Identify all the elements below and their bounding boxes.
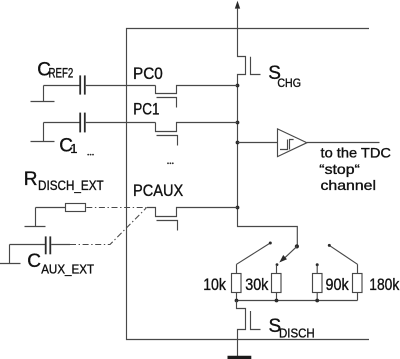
svg-text:DISCH: DISCH bbox=[279, 325, 315, 340]
ellipsis (between PC1 and PCAUX) bbox=[167, 162, 169, 164]
switch contact (180k) bbox=[330, 246, 358, 264]
supply arrow (top) bbox=[235, 1, 240, 9]
svg-text:PC0: PC0 bbox=[133, 65, 163, 83]
ground (under CREF2) bbox=[31, 86, 55, 102]
ground (main, under S_DISCH) bbox=[228, 356, 252, 359]
resistor R_DISCH_EXT bbox=[36, 207, 66, 209]
ground (under C1) bbox=[31, 123, 55, 142]
transistor S_DISCH bbox=[237, 301, 246, 357]
wire dash-dot R_DISCH_EXT to PCAUX bbox=[86, 207, 147, 209]
capacitor C1 bbox=[44, 122, 80, 124]
node PC1 junction bbox=[236, 121, 240, 125]
svg-text:AUX_EXT: AUX_EXT bbox=[41, 263, 94, 277]
wire supply vertical into S_CHG bbox=[238, 8, 246, 86]
svg-text:90k: 90k bbox=[326, 275, 350, 294]
wire CREF2 to PC0 bbox=[86, 85, 156, 87]
svg-text:PCAUX: PCAUX bbox=[133, 182, 183, 200]
resistor 90k bbox=[316, 266, 318, 301]
wire resistor bottom rail bbox=[237, 300, 358, 302]
svg-text:R: R bbox=[24, 169, 38, 190]
transistor PC0 bbox=[156, 86, 238, 94]
transistor PC1 bbox=[156, 123, 238, 132]
node 30k bottom bbox=[275, 299, 279, 303]
svg-text:to the TDC: to the TDC bbox=[321, 145, 392, 161]
svg-text:180k: 180k bbox=[369, 275, 399, 294]
node 90k bottom bbox=[315, 299, 319, 303]
svg-text:“stop“: “stop“ bbox=[319, 161, 360, 177]
ellipsis (below C1) bbox=[87, 154, 89, 156]
wire main vertical rail bbox=[238, 86, 298, 247]
switch contact (30k) bbox=[276, 263, 279, 266]
resistor 30k bbox=[276, 265, 278, 301]
switch contact (10k) bbox=[237, 243, 270, 264]
wire C1 to PC1 bbox=[86, 122, 156, 124]
node PCAUX junction bbox=[236, 206, 240, 210]
resistor 180k bbox=[357, 264, 359, 300]
resistor 10k bbox=[236, 264, 238, 300]
ground (under R_DISCH_EXT) bbox=[25, 208, 46, 227]
ground (under C_AUX_EXT) bbox=[0, 245, 21, 264]
transistor PCAUX bbox=[147, 208, 238, 217]
svg-text:REF2: REF2 bbox=[49, 65, 74, 80]
svg-text:10k: 10k bbox=[203, 275, 226, 294]
capacitor C_AUX_EXT bbox=[10, 244, 46, 246]
svg-text:CHG: CHG bbox=[277, 78, 301, 90]
capacitor CREF2 bbox=[44, 85, 80, 87]
switch wiper arrow (selects 30k) bbox=[285, 246, 297, 258]
wire comparator output bbox=[307, 142, 380, 144]
wire dash-dot C_AUX_EXT to PCAUX bbox=[70, 208, 146, 245]
node 10k bottom bbox=[235, 299, 239, 303]
svg-text:1: 1 bbox=[70, 141, 77, 156]
transistor S_CHG gate bbox=[251, 57, 261, 75]
svg-text:PC1: PC1 bbox=[133, 101, 159, 119]
node PC0/S_CHG junction bbox=[236, 84, 240, 88]
node comparator junction bbox=[236, 141, 240, 145]
switch contact (90k) bbox=[316, 263, 319, 266]
chip boundary box (open right side) bbox=[127, 29, 370, 340]
svg-text:channel: channel bbox=[321, 177, 377, 193]
wire comparator input bbox=[238, 142, 278, 144]
svg-text:30k: 30k bbox=[245, 275, 269, 294]
switch wiper node bbox=[295, 244, 299, 248]
svg-text:DISCH_EXT: DISCH_EXT bbox=[38, 178, 104, 193]
op-amp U1 (Schmitt comparator) bbox=[278, 129, 307, 157]
svg-text:C: C bbox=[27, 251, 41, 272]
